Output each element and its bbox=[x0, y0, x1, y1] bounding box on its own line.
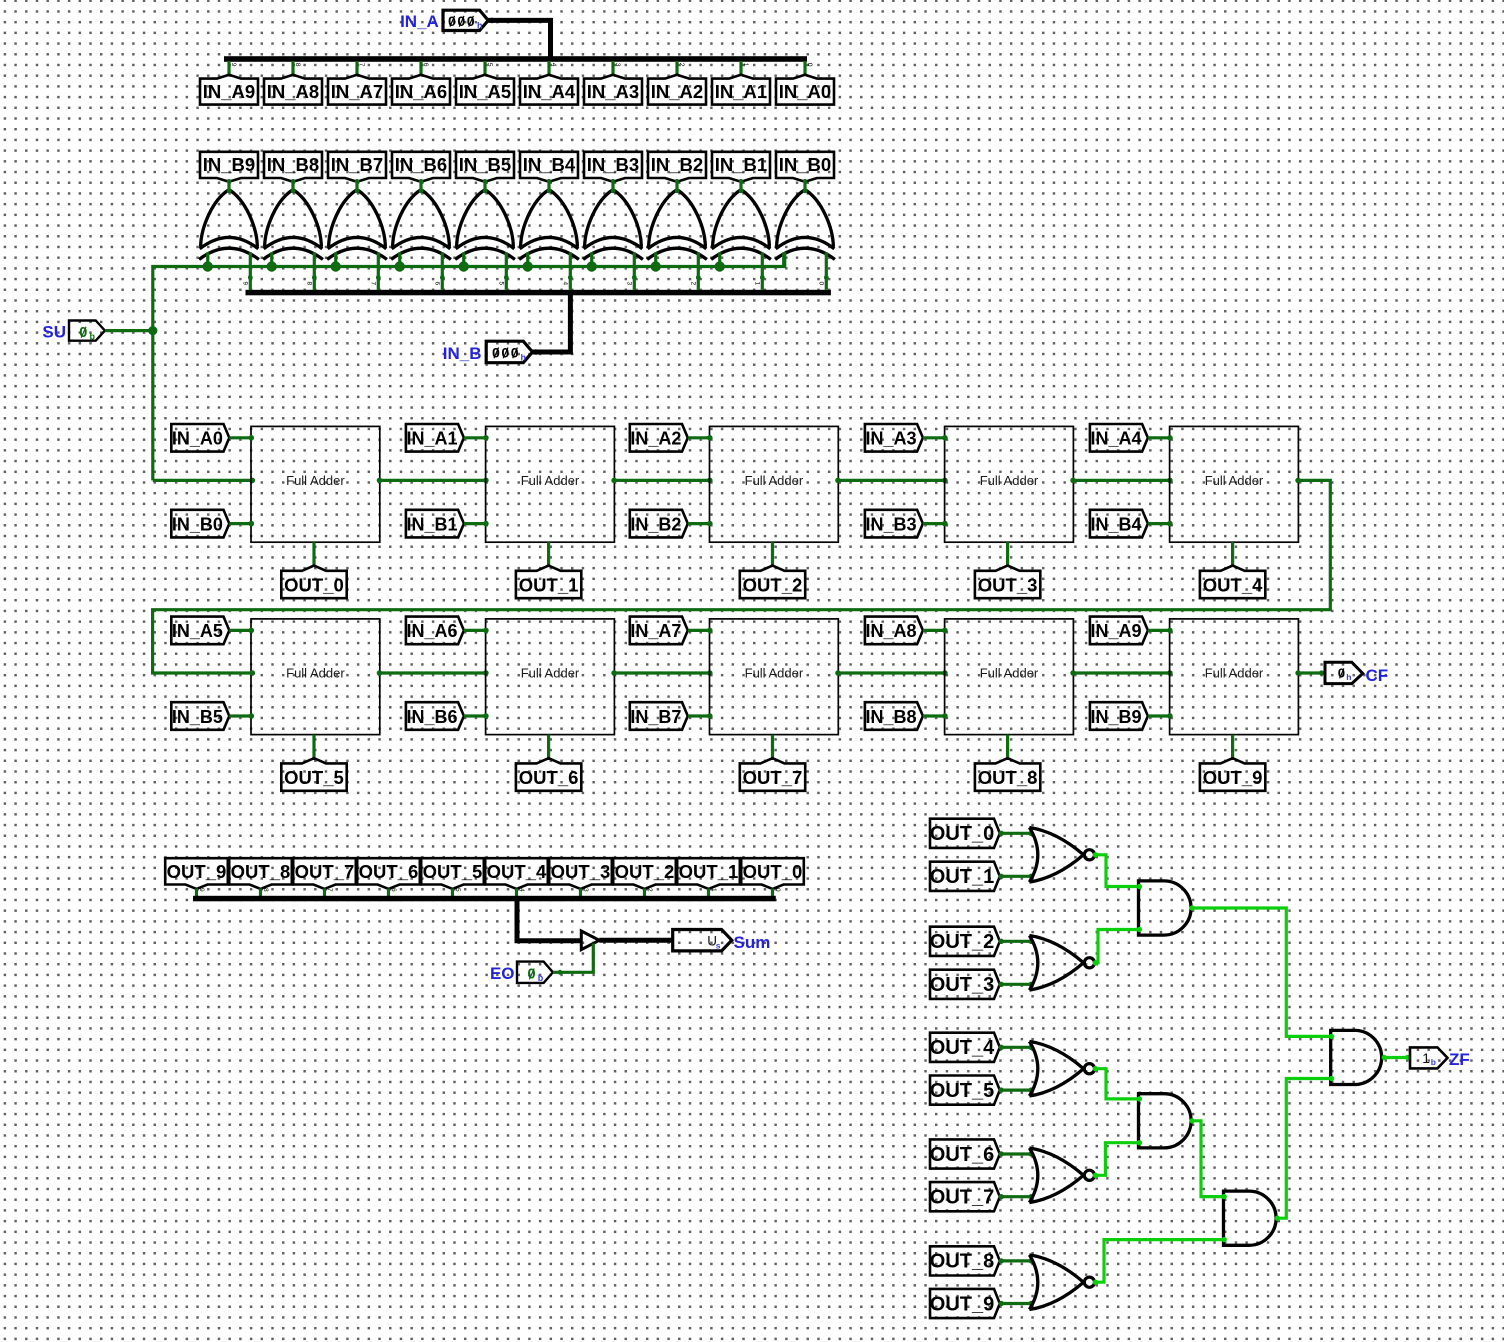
tunnel IN_B5 bbox=[171, 702, 229, 730]
wire b-input bbox=[688, 713, 713, 719]
tunnel IN_B0 bbox=[171, 510, 229, 538]
xor gate X5 bbox=[455, 179, 515, 259]
tunnel OUT_7 bbox=[740, 758, 805, 791]
svg-text:IN_A9: IN_A9 bbox=[203, 81, 255, 102]
wire sum out bbox=[547, 542, 550, 566]
input pin IN_A bbox=[400, 10, 488, 31]
svg-text:OUT_0: OUT_0 bbox=[930, 823, 994, 845]
svg-text:IN_A2: IN_A2 bbox=[651, 81, 703, 102]
full adder FA6 bbox=[486, 619, 615, 735]
junction bbox=[715, 261, 725, 271]
wire carry to CF bbox=[1295, 670, 1325, 676]
tunnel IN_B6 bbox=[406, 702, 464, 730]
wire a-input bbox=[1148, 435, 1173, 441]
wire bus driver to Sum bbox=[599, 938, 672, 943]
tunnel IN_A9 bbox=[200, 75, 258, 105]
wire merger pin bbox=[707, 889, 710, 898]
svg-text:s: s bbox=[716, 940, 721, 950]
svg-text:IN_A9: IN_A9 bbox=[1090, 621, 1141, 641]
wire xor inputs bbox=[400, 252, 445, 289]
svg-text:5: 5 bbox=[486, 63, 493, 67]
svg-text:OUT_6: OUT_6 bbox=[519, 767, 579, 788]
and gate A2 bbox=[1139, 1094, 1192, 1148]
tunnel OUT_0 (zero-flag) bbox=[930, 819, 1000, 848]
wire merger pin bbox=[259, 889, 262, 898]
wire A3 to A4 bbox=[1275, 1076, 1335, 1221]
junction bbox=[331, 261, 341, 271]
wire b-input bbox=[923, 521, 948, 527]
wire b-input bbox=[229, 521, 254, 527]
wire xor inputs bbox=[208, 252, 253, 289]
wire carry-in row1 bbox=[153, 478, 255, 484]
tunnel OUT_6 bbox=[357, 858, 420, 889]
svg-text:IN_A: IN_A bbox=[400, 12, 439, 31]
wire sum out bbox=[547, 735, 550, 759]
svg-text:IN_B4: IN_B4 bbox=[1090, 514, 1141, 534]
junction bbox=[587, 261, 597, 271]
wire sum out bbox=[771, 735, 774, 759]
wire A2 to A3 bbox=[1190, 1118, 1227, 1199]
svg-text:OUT_0: OUT_0 bbox=[284, 574, 344, 595]
svg-text:Full Adder: Full Adder bbox=[1205, 473, 1264, 488]
svg-text:4: 4 bbox=[550, 63, 557, 67]
wire to nor bbox=[999, 1087, 1034, 1092]
wire xor inputs bbox=[720, 252, 765, 289]
wire to nor bbox=[999, 831, 1034, 836]
svg-text:h: h bbox=[477, 21, 483, 31]
svg-text:0: 0 bbox=[774, 888, 781, 892]
svg-text:5: 5 bbox=[454, 888, 461, 892]
wire carry wrap bbox=[153, 478, 1331, 676]
wire sum out bbox=[1006, 735, 1009, 759]
wire xor inputs bbox=[272, 252, 317, 289]
svg-text:6: 6 bbox=[390, 888, 397, 892]
wire SU distribution line bbox=[153, 252, 785, 480]
tunnel IN_A2 bbox=[648, 75, 706, 105]
xor gate X6 bbox=[391, 179, 451, 259]
svg-text:b: b bbox=[538, 973, 544, 983]
junction bbox=[203, 261, 213, 271]
wire xor inputs bbox=[592, 252, 637, 289]
tunnel IN_A6 bbox=[406, 617, 464, 645]
svg-text:Full Adder: Full Adder bbox=[1205, 666, 1264, 681]
wire carry bbox=[835, 478, 948, 484]
wire a-input bbox=[923, 628, 948, 634]
svg-text:8: 8 bbox=[305, 282, 312, 286]
svg-text:IN_B1: IN_B1 bbox=[406, 514, 457, 534]
junction bbox=[523, 261, 533, 271]
wire merger pin bbox=[387, 889, 390, 898]
tunnel IN_B4 bbox=[520, 152, 578, 182]
tunnel OUT_7 (zero-flag) bbox=[930, 1182, 1000, 1211]
and gate A4 bbox=[1331, 1030, 1382, 1084]
svg-text:IN_B9: IN_B9 bbox=[1090, 707, 1141, 727]
full adder FA9 bbox=[1170, 619, 1299, 735]
svg-text:b: b bbox=[1431, 1057, 1436, 1067]
svg-text:OUT_6: OUT_6 bbox=[930, 1144, 994, 1166]
svg-text:IN_B7: IN_B7 bbox=[630, 707, 681, 727]
splitter S2 (10x1) bbox=[241, 282, 831, 296]
svg-text:IN_A1: IN_A1 bbox=[406, 429, 457, 449]
nor gate N2 bbox=[1029, 936, 1094, 991]
svg-text:9: 9 bbox=[230, 63, 237, 67]
svg-text:OUT_5: OUT_5 bbox=[423, 861, 483, 882]
svg-text:OUT_4: OUT_4 bbox=[1203, 574, 1263, 595]
svg-text:OUT_9: OUT_9 bbox=[1203, 767, 1263, 788]
svg-text:IN_A3: IN_A3 bbox=[865, 429, 916, 449]
wire carry bbox=[611, 670, 712, 676]
wire to nor bbox=[999, 1194, 1034, 1199]
tunnel IN_B1 bbox=[406, 510, 464, 538]
svg-text:1: 1 bbox=[710, 888, 717, 892]
svg-text:OUT_5: OUT_5 bbox=[284, 767, 344, 788]
wire carry bbox=[1070, 670, 1172, 676]
svg-text:OUT_3: OUT_3 bbox=[551, 861, 611, 882]
xor gate X8 bbox=[263, 179, 323, 259]
tunnel OUT_8 (zero-flag) bbox=[930, 1246, 1000, 1275]
svg-text:IN_A1: IN_A1 bbox=[715, 81, 767, 102]
svg-text:IN_A0: IN_A0 bbox=[779, 81, 831, 102]
tunnel OUT_4 bbox=[485, 858, 548, 889]
tunnel OUT_2 (zero-flag) bbox=[930, 927, 1000, 956]
tunnel IN_A5 bbox=[171, 617, 229, 645]
svg-text:IN_A6: IN_A6 bbox=[395, 81, 447, 102]
input pin EO bbox=[490, 962, 553, 983]
xor gate X4 bbox=[519, 179, 579, 259]
svg-text:9: 9 bbox=[198, 888, 205, 892]
svg-text:OUT_0: OUT_0 bbox=[743, 861, 803, 882]
wire a-input bbox=[229, 435, 254, 441]
svg-text:IN_A2: IN_A2 bbox=[630, 429, 681, 449]
tunnel OUT_8 bbox=[229, 858, 292, 889]
tunnel OUT_2 bbox=[613, 858, 676, 889]
nor gate N5 bbox=[1029, 1255, 1094, 1310]
tunnel OUT_6 bbox=[516, 758, 581, 791]
full adder FA4 bbox=[1170, 426, 1299, 542]
tunnel OUT_0 bbox=[741, 858, 804, 889]
tunnel OUT_5 (zero-flag) bbox=[930, 1076, 1000, 1105]
xor gate X1 bbox=[711, 179, 771, 259]
svg-text:1: 1 bbox=[742, 63, 749, 67]
svg-text:OUT_8: OUT_8 bbox=[930, 1251, 994, 1273]
svg-text:IN_A7: IN_A7 bbox=[331, 81, 383, 102]
svg-text:IN_B1: IN_B1 bbox=[715, 154, 767, 175]
wire carry bbox=[1070, 478, 1172, 484]
tunnel IN_B7 bbox=[328, 152, 386, 182]
wire xor inputs bbox=[464, 252, 509, 289]
wire sum out bbox=[312, 542, 315, 566]
wire to nor bbox=[999, 982, 1034, 987]
svg-text:Sum: Sum bbox=[734, 933, 771, 952]
svg-text:Full Adder: Full Adder bbox=[745, 666, 804, 681]
full adder FA7 bbox=[710, 619, 839, 735]
svg-text:Full Adder: Full Adder bbox=[745, 473, 804, 488]
tunnel IN_A8 bbox=[264, 75, 322, 105]
nor gate N1 bbox=[1029, 828, 1094, 883]
wire bus splitter S2 to IN_B bbox=[533, 294, 571, 355]
tunnel OUT_5 bbox=[421, 858, 484, 889]
wire carry bbox=[835, 670, 948, 676]
tunnel IN_B5 bbox=[456, 152, 514, 182]
tunnel IN_A5 bbox=[456, 75, 514, 105]
wire merger pin bbox=[515, 889, 518, 898]
svg-text:OUT_7: OUT_7 bbox=[930, 1187, 994, 1209]
xor gate X7 bbox=[327, 179, 387, 259]
svg-text:Full Adder: Full Adder bbox=[286, 666, 345, 681]
tunnel OUT_7 bbox=[293, 858, 356, 889]
wire xor inputs bbox=[656, 252, 701, 289]
wire a-input bbox=[1148, 628, 1173, 634]
svg-text:IN_B8: IN_B8 bbox=[865, 707, 916, 727]
svg-text:OUT_3: OUT_3 bbox=[930, 974, 994, 996]
output pin CF bbox=[1325, 662, 1388, 685]
tunnel IN_A0 bbox=[171, 424, 229, 452]
tunnel IN_A9 bbox=[1090, 617, 1148, 645]
input pin IN_B bbox=[443, 341, 533, 363]
tunnel IN_B6 bbox=[392, 152, 450, 182]
svg-text:IN_B7: IN_B7 bbox=[331, 154, 383, 175]
tunnel OUT_5 bbox=[281, 758, 346, 791]
svg-text:9: 9 bbox=[241, 282, 248, 286]
wire b-input bbox=[464, 521, 489, 527]
svg-text:2: 2 bbox=[689, 282, 696, 286]
svg-text:OUT_7: OUT_7 bbox=[295, 861, 355, 882]
svg-text:IN_B9: IN_B9 bbox=[203, 154, 255, 175]
svg-text:IN_B2: IN_B2 bbox=[630, 514, 681, 534]
wire to nor bbox=[999, 874, 1034, 879]
tunnel IN_A4 bbox=[520, 75, 578, 105]
svg-text:IN_B5: IN_B5 bbox=[172, 707, 223, 727]
svg-text:IN_B8: IN_B8 bbox=[267, 154, 319, 175]
tunnel IN_B0 bbox=[776, 152, 834, 182]
wire EO to driver enable bbox=[553, 944, 593, 975]
and gate A1 bbox=[1139, 881, 1192, 935]
wire xor inputs bbox=[528, 252, 573, 289]
xor gate X2 bbox=[647, 179, 707, 259]
wire a-input bbox=[688, 628, 713, 634]
wire merger pin bbox=[643, 889, 646, 898]
svg-text:6: 6 bbox=[433, 282, 440, 286]
tunnel IN_B1 bbox=[712, 152, 770, 182]
xor gate X0 bbox=[775, 179, 835, 259]
wire xor inputs bbox=[784, 252, 829, 289]
svg-text:OUT_9: OUT_9 bbox=[930, 1293, 994, 1315]
svg-text:OUT_1: OUT_1 bbox=[519, 574, 579, 595]
splitter S1 (1x10) bbox=[224, 56, 813, 75]
tunnel OUT_3 bbox=[549, 858, 612, 889]
tunnel IN_B8 bbox=[865, 702, 923, 730]
svg-text:OUT_2: OUT_2 bbox=[615, 861, 675, 882]
junction bbox=[459, 261, 469, 271]
full adder FA0 bbox=[251, 426, 380, 542]
svg-text:IN_B2: IN_B2 bbox=[651, 154, 703, 175]
tunnel IN_B9 bbox=[200, 152, 258, 182]
svg-text:ZF: ZF bbox=[1449, 1050, 1470, 1069]
wire bus merger to driver bbox=[517, 901, 581, 941]
wire a-input bbox=[229, 628, 254, 634]
full adder FA5 bbox=[251, 619, 380, 735]
junction bbox=[267, 261, 277, 271]
tunnel OUT_1 (zero-flag) bbox=[930, 862, 1000, 891]
wire merger pin bbox=[771, 889, 774, 898]
svg-text:IN_A5: IN_A5 bbox=[459, 81, 511, 102]
svg-text:IN_B6: IN_B6 bbox=[406, 707, 457, 727]
svg-text:IN_B0: IN_B0 bbox=[172, 514, 223, 534]
svg-text:OUT_8: OUT_8 bbox=[978, 767, 1038, 788]
full adder FA2 bbox=[710, 426, 839, 542]
svg-text:1: 1 bbox=[753, 282, 760, 286]
svg-text:CF: CF bbox=[1366, 666, 1389, 685]
svg-text:OUT_7: OUT_7 bbox=[743, 767, 803, 788]
wire b-input bbox=[229, 713, 254, 719]
tunnel OUT_4 bbox=[1200, 566, 1265, 599]
tunnel IN_B2 bbox=[630, 510, 688, 538]
wire merger pin bbox=[323, 889, 326, 898]
svg-text:OUT_2: OUT_2 bbox=[930, 931, 994, 953]
svg-text:8: 8 bbox=[262, 888, 269, 892]
svg-text:OUT_5: OUT_5 bbox=[930, 1080, 994, 1102]
svg-text:Full Adder: Full Adder bbox=[980, 473, 1039, 488]
svg-text:4: 4 bbox=[561, 282, 568, 286]
tunnel OUT_1 bbox=[677, 858, 740, 889]
wire merger pin bbox=[579, 889, 582, 898]
tunnel IN_B2 bbox=[648, 152, 706, 182]
svg-text:2: 2 bbox=[646, 888, 653, 892]
xor gate X3 bbox=[583, 179, 643, 259]
svg-text:IN_A4: IN_A4 bbox=[1090, 429, 1141, 449]
nor gate N3 bbox=[1029, 1041, 1094, 1096]
wire to nor bbox=[999, 1045, 1034, 1050]
svg-text:7: 7 bbox=[326, 888, 333, 892]
svg-text:IN_B0: IN_B0 bbox=[779, 154, 831, 175]
wire b-input bbox=[464, 713, 489, 719]
tunnel OUT_0 bbox=[281, 566, 346, 599]
full adder FA1 bbox=[486, 426, 615, 542]
full adder FA3 bbox=[945, 426, 1074, 542]
wire b-input bbox=[1148, 521, 1173, 527]
wire carry bbox=[611, 478, 712, 484]
tunnel IN_A6 bbox=[392, 75, 450, 105]
xor gate X9 bbox=[199, 179, 259, 259]
wire sum out bbox=[312, 735, 315, 759]
tunnel OUT_3 (zero-flag) bbox=[930, 970, 1000, 999]
svg-text:3: 3 bbox=[625, 282, 632, 286]
tunnel IN_A3 bbox=[584, 75, 642, 105]
tunnel OUT_9 bbox=[165, 858, 228, 889]
svg-text:3: 3 bbox=[582, 888, 589, 892]
svg-text:IN_B6: IN_B6 bbox=[395, 154, 447, 175]
svg-text:IN_A8: IN_A8 bbox=[267, 81, 319, 102]
svg-text:OUT_2: OUT_2 bbox=[743, 574, 803, 595]
svg-text:OUT_4: OUT_4 bbox=[487, 861, 547, 882]
tunnel OUT_8 bbox=[975, 758, 1040, 791]
svg-text:IN_A4: IN_A4 bbox=[523, 81, 576, 102]
svg-text:5: 5 bbox=[497, 282, 504, 286]
wire b-input bbox=[688, 521, 713, 527]
tunnel IN_A7 bbox=[630, 617, 688, 645]
svg-text:IN_B3: IN_B3 bbox=[587, 154, 639, 175]
svg-text:8: 8 bbox=[294, 63, 301, 67]
wire SU to junction bbox=[105, 329, 153, 332]
tunnel IN_A4 bbox=[1090, 424, 1148, 452]
svg-text:2: 2 bbox=[678, 63, 685, 67]
wire b-input bbox=[923, 713, 948, 719]
tunnel IN_B8 bbox=[264, 152, 322, 182]
wire carry bbox=[377, 670, 489, 676]
svg-text:IN_B5: IN_B5 bbox=[459, 154, 511, 175]
svg-text:IN_A3: IN_A3 bbox=[587, 81, 639, 102]
wire xor inputs bbox=[336, 252, 381, 289]
full adder FA8 bbox=[945, 619, 1074, 735]
wire a-input bbox=[688, 435, 713, 441]
tunnel IN_A1 bbox=[712, 75, 770, 105]
wire N4 out bbox=[1093, 1140, 1142, 1178]
svg-text:Full Adder: Full Adder bbox=[286, 473, 345, 488]
wire bus IN_A to splitter S1 bbox=[488, 18, 550, 59]
tunnel IN_A1 bbox=[406, 424, 464, 452]
input pin SU bbox=[42, 321, 105, 342]
svg-text:IN_A5: IN_A5 bbox=[172, 621, 223, 641]
junction bbox=[651, 261, 661, 271]
tunnel IN_A7 bbox=[328, 75, 386, 105]
output pin Sum bbox=[673, 930, 771, 953]
wire carry bbox=[377, 478, 489, 484]
svg-text:0: 0 bbox=[806, 63, 813, 67]
svg-text:h: h bbox=[1346, 672, 1351, 682]
svg-text:IN_A0: IN_A0 bbox=[172, 429, 223, 449]
splitter S3 (10x1 merger) bbox=[193, 888, 781, 901]
svg-text:OUT_3: OUT_3 bbox=[978, 574, 1038, 595]
wire merger pin bbox=[451, 889, 454, 898]
svg-text:OUT_8: OUT_8 bbox=[231, 861, 291, 882]
junction SU bbox=[148, 326, 157, 335]
tunnel IN_A3 bbox=[865, 424, 923, 452]
tunnel OUT_4 (zero-flag) bbox=[930, 1033, 1000, 1062]
svg-text:OUT_6: OUT_6 bbox=[359, 861, 419, 882]
tunnel IN_A8 bbox=[865, 617, 923, 645]
svg-text:4: 4 bbox=[518, 888, 525, 892]
svg-text:IN_A7: IN_A7 bbox=[630, 621, 681, 641]
svg-text:Full Adder: Full Adder bbox=[521, 666, 580, 681]
svg-text:OUT_1: OUT_1 bbox=[679, 861, 739, 882]
wire N2 out bbox=[1093, 927, 1142, 966]
svg-text:OUT_4: OUT_4 bbox=[930, 1037, 995, 1059]
tunnel IN_B7 bbox=[630, 702, 688, 730]
tunnel OUT_2 bbox=[740, 566, 805, 599]
svg-text:OUT_1: OUT_1 bbox=[930, 866, 994, 888]
wire a-input bbox=[464, 628, 489, 634]
tunnel IN_B4 bbox=[1090, 510, 1148, 538]
nor gate N4 bbox=[1029, 1148, 1094, 1203]
svg-text:IN_B3: IN_B3 bbox=[865, 514, 916, 534]
svg-text:1: 1 bbox=[1422, 1050, 1430, 1066]
svg-text:Full Adder: Full Adder bbox=[980, 666, 1039, 681]
wire sum out bbox=[1231, 735, 1234, 759]
svg-text:7: 7 bbox=[358, 63, 365, 67]
tunnel OUT_9 (zero-flag) bbox=[930, 1289, 1000, 1318]
wire merger pin bbox=[195, 889, 198, 898]
tunnel IN_B9 bbox=[1090, 702, 1148, 730]
tunnel IN_B3 bbox=[865, 510, 923, 538]
and gate A3 bbox=[1224, 1191, 1277, 1245]
svg-text:SU: SU bbox=[42, 322, 66, 341]
wire N3 out bbox=[1093, 1066, 1142, 1102]
svg-text:IN_A6: IN_A6 bbox=[406, 621, 457, 641]
tunnel OUT_6 (zero-flag) bbox=[930, 1139, 1000, 1168]
tunnel IN_A0 bbox=[776, 75, 834, 105]
svg-text:IN_A8: IN_A8 bbox=[865, 621, 916, 641]
svg-text:OUT_9: OUT_9 bbox=[167, 861, 227, 882]
